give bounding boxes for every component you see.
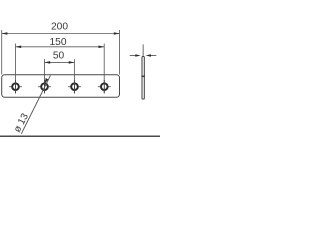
hole 4 h-centerline [98, 86, 111, 88]
thickness dim line left [130, 55, 137, 57]
hole 2 h-centerline [38, 86, 51, 88]
extension/center line hole 2 (50 dim) [44, 59, 46, 93]
svg-text:200: 200 [51, 22, 68, 33]
hole 2 circle [41, 83, 48, 90]
arrow right 150 [99, 46, 105, 49]
hole 4 circle [101, 83, 108, 90]
hole 3 h-centerline [68, 86, 81, 88]
hole 1 h-centerline [9, 86, 22, 88]
extension/center line hole 1 (150 dim) [15, 44, 17, 94]
hole 4 v-centerline [103, 80, 105, 93]
extension/center line hole 3 (50 dim) [73, 59, 75, 93]
bottom separator line [0, 135, 160, 137]
svg-text:150: 150 [50, 37, 67, 48]
side view body [142, 57, 144, 100]
dimension line 50 [45, 61, 75, 63]
leader line to hole 2 [21, 76, 50, 134]
thickness arrow left [135, 54, 140, 57]
svg-text:50: 50 [53, 51, 65, 62]
arrow right 50 [69, 61, 75, 64]
hole 3 circle [71, 83, 78, 90]
side view centerline [142, 44, 144, 56]
extension/center line hole 4 (150 dim) [103, 44, 105, 94]
hole 1 v-centerline [15, 80, 17, 93]
hole 1 circle [12, 83, 19, 90]
thickness dim line right [151, 55, 157, 57]
leader arrowhead [45, 78, 49, 83]
arrow left 50 [45, 61, 51, 64]
hole 2 v-centerline [44, 80, 46, 93]
arrow left 200 [2, 32, 8, 35]
extension line right (200 dim) [119, 30, 121, 75]
dimension line 200 [2, 33, 120, 35]
side view mid tick [141, 75, 145, 77]
arrow left 150 [16, 46, 22, 49]
hole 3 v-centerline [74, 80, 76, 93]
thickness arrow right [146, 54, 151, 57]
svg-text:ø 13: ø 13 [12, 111, 31, 134]
dimension line 150 [16, 46, 105, 48]
arrow right 200 [114, 32, 120, 35]
plate outline (top view) [2, 75, 120, 98]
extension line left (200 dim) [1, 30, 3, 75]
